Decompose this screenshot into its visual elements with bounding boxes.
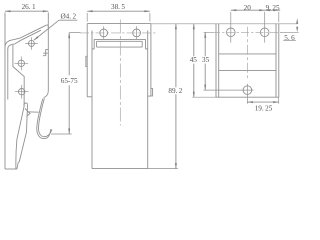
arrows 65-75	[68, 33, 70, 39]
left view: lever right edge	[17, 105, 28, 169]
long top extension line	[151, 23, 298, 25]
left view: inner left edge	[7, 48, 9, 99]
dim 35 line	[204, 32, 206, 90]
dim 35 extensions	[204, 32, 242, 90]
left view: bail bar to hook	[28, 111, 39, 113]
svg-text:5. 6: 5. 6	[284, 34, 295, 42]
arrows 35	[204, 32, 206, 38]
svg-text:26. 1: 26. 1	[22, 3, 36, 11]
dim 65-75 line	[68, 33, 70, 134]
left view: hook inner	[37, 99, 51, 139]
middle view: bottom edge	[92, 168, 148, 170]
dim 38.5 extension lines	[87, 13, 150, 22]
right view: outer rect	[216, 24, 279, 97]
left view: lever tab	[25, 109, 30, 117]
left view: lever top curl	[24, 103, 28, 106]
dim 26.1 line	[5, 10, 48, 12]
hole R1	[227, 28, 236, 37]
left view: bottom edge	[5, 168, 17, 170]
left view: hook outer	[38, 98, 51, 136]
right view: inner verticals	[219, 24, 276, 97]
arrow leader 4.2	[34, 36, 39, 40]
leader line for dia 4.2	[34, 20, 77, 40]
left view: inner corner arc	[8, 44, 15, 49]
right view: horizontal ribs	[219, 54, 276, 71]
left view: lower right arc	[44, 91, 49, 98]
middle view: outer right edge	[150, 24, 152, 97]
arrows 9.25	[265, 9, 271, 11]
dim 5.6 underline	[283, 40, 296, 42]
left view: right edge with dim extension	[47, 13, 49, 92]
left view: outer corner arc	[5, 40, 14, 48]
arrows 19.25	[247, 101, 253, 103]
hole M1	[100, 29, 108, 37]
dim 38.5 line	[87, 10, 150, 12]
left view: outer slant top edge	[14, 25, 47, 40]
svg-text:38. 5: 38. 5	[111, 3, 125, 11]
dim 5.6 extensions	[280, 31, 299, 33]
middle view: bail band outer	[94, 39, 145, 49]
middle view: right nub	[151, 89, 153, 96]
dim 19.25 line	[247, 101, 278, 103]
dim 20 extension lines	[231, 12, 279, 26]
hole L2	[18, 60, 24, 66]
svg-text:89. 2: 89. 2	[168, 87, 182, 95]
hole L1	[28, 40, 34, 46]
middle view: right step	[148, 95, 151, 97]
arrows 5.6	[296, 18, 298, 24]
svg-text:9. 25: 9. 25	[266, 4, 280, 12]
dim 65-75 extensions	[51, 33, 81, 134]
left view: lever left edge	[16, 106, 24, 169]
dim 20 / 9.25 line	[231, 9, 280, 11]
middle view: inner left edge	[91, 31, 93, 169]
middle view: bail band inner	[97, 41, 143, 47]
svg-text:Ø4. 2: Ø4. 2	[60, 13, 76, 21]
middle view: left step	[87, 96, 92, 98]
dim 89.2 bottom extension	[148, 168, 178, 170]
middle view: outer left edge	[86, 24, 88, 97]
dim 45 bottom extension	[192, 96, 216, 98]
middle view: top edge	[87, 23, 151, 25]
hole L3	[19, 89, 25, 95]
hole M2	[133, 29, 141, 37]
arrowheads	[5, 9, 298, 168]
left view: left edge with dim extension	[4, 13, 6, 170]
svg-text:35: 35	[202, 56, 210, 64]
svg-text:20: 20	[244, 4, 252, 12]
middle view: vertical centerline	[119, 20, 121, 126]
middle view: inner right edge	[147, 31, 149, 169]
dim 45 line	[193, 24, 195, 97]
right view: vertical centerline	[247, 27, 249, 81]
left view: peak arc	[46, 25, 48, 27]
dim 19.25 extensions	[247, 96, 278, 104]
left view: inner slant edge	[14, 30, 41, 44]
arrows 20	[231, 9, 237, 11]
svg-text:19. 25: 19. 25	[255, 104, 273, 112]
middle view: bail band feet	[92, 48, 148, 50]
arrows 45	[193, 24, 195, 30]
middle view: horizontal centerline	[80, 32, 157, 34]
dimension texts	[22, 3, 296, 112]
arrows 26.1	[5, 10, 11, 12]
left view: lever inner edge polyline	[13, 45, 24, 107]
left view: hook tip end	[51, 128, 52, 130]
svg-text:65-75: 65-75	[61, 77, 78, 85]
arrows 38.5	[87, 10, 93, 12]
dim 89.2 line	[175, 24, 177, 169]
right view: horizontal centerline through holes	[212, 31, 287, 33]
svg-text:45: 45	[190, 56, 198, 64]
arrows 89.2	[175, 24, 177, 30]
hole R3 bottom	[243, 86, 252, 95]
left view: right notch	[43, 49, 48, 55]
middle view: left nub	[86, 56, 87, 66]
hole R2	[260, 28, 269, 37]
